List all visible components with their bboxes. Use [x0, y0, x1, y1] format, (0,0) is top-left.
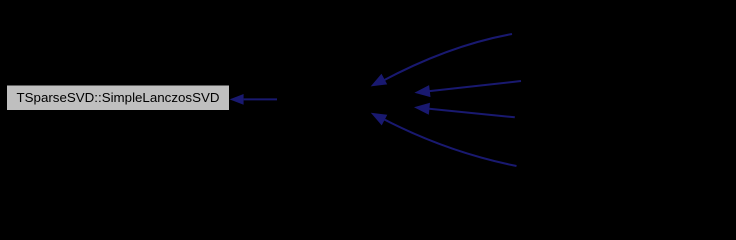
arrow edge3: upper-middle right node to middle node [414, 81, 521, 97]
svg-text:TSparseSVD::SimpleLanczosSVD: TSparseSVD::SimpleLanczosSVD [17, 90, 220, 105]
arrow edge4: lower-middle right node to middle node [414, 103, 515, 118]
arrow edge1: middle node to TSparseSVD::SimpleLanczosSVD [230, 94, 277, 105]
arrow edge2: top-right node to middle node [371, 34, 512, 86]
arrow edge5: bottom-right node to middle node [371, 113, 517, 166]
node TSparseSVD::SimpleLanczosSVD (highlighted) [7, 86, 229, 111]
